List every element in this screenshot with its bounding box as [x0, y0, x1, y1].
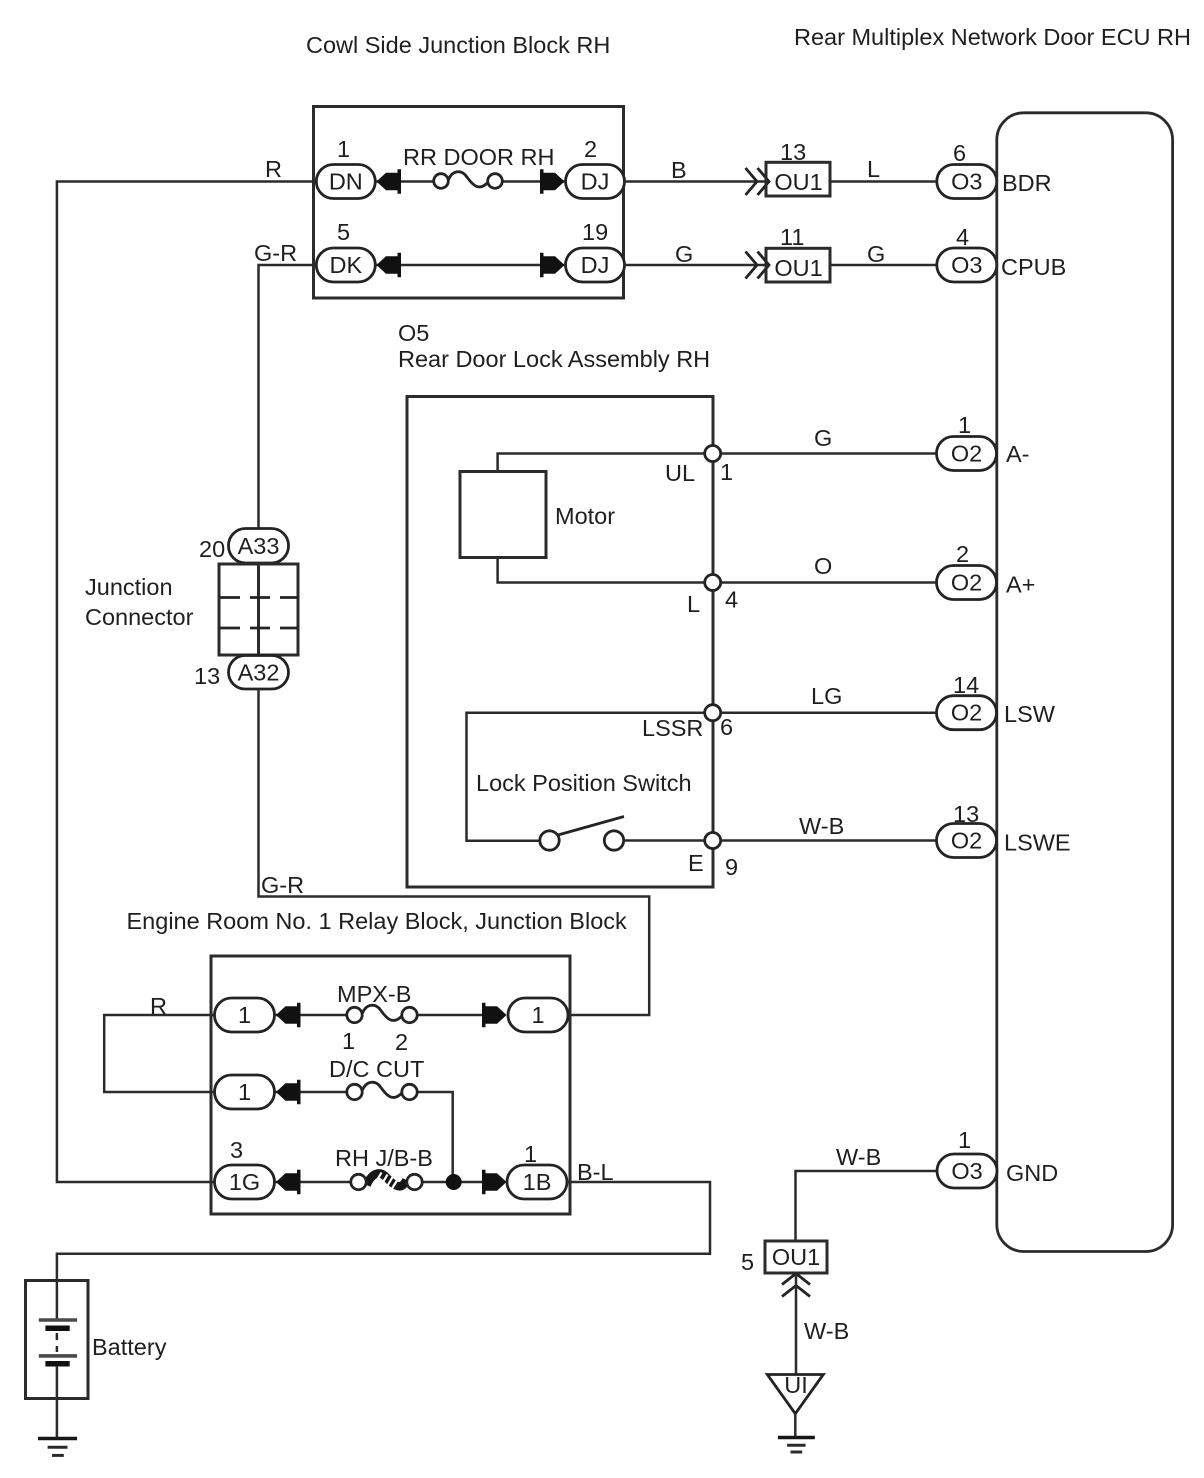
- svg-text:DJ: DJ: [581, 169, 610, 195]
- label Battery: [92, 1334, 167, 1360]
- label wire color B-L: [577, 1159, 614, 1185]
- connector OU1 pin13: [766, 162, 830, 196]
- svg-text:R: R: [150, 993, 167, 1019]
- arrow into 1G: [276, 1170, 301, 1194]
- fuse MPX-B: [347, 1005, 417, 1022]
- connector relay row1 left pin 1: [215, 998, 275, 1032]
- ground point UI triangle: [767, 1372, 823, 1414]
- svg-text:4: 4: [725, 587, 738, 613]
- node pin 9 E: [705, 833, 721, 849]
- wire relay row2 from fuse down to junction: [417, 1092, 453, 1182]
- svg-text:B: B: [671, 157, 687, 183]
- svg-text:DJ: DJ: [581, 252, 610, 278]
- wire G pin1 to O2 A-: [721, 452, 937, 455]
- fuse D/C CUT: [347, 1082, 417, 1099]
- wire relay row2 inner left: [275, 1091, 348, 1094]
- wire B-L from 1B to battery line: [57, 1182, 710, 1319]
- fuse RR DOOR RH: [434, 172, 503, 189]
- pin 13 label left of A32: [194, 663, 220, 689]
- svg-text:2: 2: [584, 136, 597, 162]
- svg-text:2: 2: [956, 541, 969, 567]
- component Rear Door Lock Assembly RH box: [407, 397, 713, 888]
- svg-text:LSWE: LSWE: [1004, 830, 1071, 856]
- svg-text:R: R: [265, 156, 282, 182]
- svg-text:G-R: G-R: [254, 240, 297, 266]
- label wire color G (right): [867, 241, 885, 267]
- label L: [687, 591, 700, 617]
- pin 3 label above 1G: [230, 1137, 243, 1163]
- wire O pin4 to O2 A+: [721, 581, 937, 584]
- connector A32: [229, 656, 289, 690]
- svg-text:9: 9: [725, 854, 738, 880]
- connector O3 pin6 BDR: [937, 165, 997, 199]
- connector relay row2 left pin 1: [215, 1075, 275, 1109]
- wire G from OU1 to O3 pin4: [830, 264, 937, 267]
- label wire color G-R (bottom): [261, 872, 304, 898]
- pin 13 label above OU1: [780, 139, 806, 165]
- svg-text:G-R: G-R: [261, 872, 304, 898]
- motor M box: [460, 472, 546, 558]
- inline connector chevrons row2: [746, 252, 770, 279]
- svg-text:BDR: BDR: [1002, 170, 1052, 196]
- svg-text:W-B: W-B: [804, 1318, 849, 1344]
- svg-text:O2: O2: [951, 700, 982, 726]
- pin 11 label above OU1: [780, 224, 804, 250]
- pin number 1: [720, 459, 733, 485]
- svg-text:A-: A-: [1006, 441, 1030, 467]
- svg-text:O2: O2: [951, 570, 982, 596]
- svg-text:O2: O2: [951, 828, 982, 854]
- svg-text:6: 6: [720, 714, 733, 740]
- svg-text:OU1: OU1: [774, 255, 822, 281]
- wire battery negative to ground: [56, 1366, 59, 1437]
- wire relay row3 inner right: [422, 1181, 485, 1184]
- svg-text:UL: UL: [665, 460, 695, 486]
- svg-text:MPX-B: MPX-B: [337, 981, 411, 1007]
- label O5: [398, 320, 429, 346]
- svg-text:O2: O2: [951, 441, 982, 467]
- wire G-R from A32 down and right to MPX-B: [259, 689, 650, 1015]
- pin 20 label left of A33: [199, 536, 225, 562]
- svg-text:G: G: [675, 241, 693, 267]
- svg-text:L: L: [867, 156, 880, 182]
- svg-text:CPUB: CPUB: [1001, 254, 1066, 280]
- label Engine Room No. 1 Relay Block, Junction Block: [127, 908, 628, 934]
- port name A-: [1006, 441, 1030, 467]
- svg-text:DK: DK: [329, 252, 362, 278]
- svg-text:O5: O5: [398, 320, 429, 346]
- wire G from cowl to OU1 pin11: [624, 264, 767, 267]
- port name LSW: [1004, 701, 1056, 727]
- wire W-B from OU1 pin5 up to O3 GND: [796, 1171, 938, 1241]
- svg-text:UI: UI: [784, 1372, 808, 1398]
- lock position switch sub-box: [467, 713, 712, 841]
- label wire color LG: [811, 683, 842, 709]
- label Motor: [555, 503, 615, 529]
- svg-text:4: 4: [956, 224, 969, 250]
- svg-text:1: 1: [720, 459, 733, 485]
- label LSSR: [642, 715, 703, 741]
- pin 13 label above O2: [953, 801, 979, 827]
- label fuse D/C CUT: [329, 1056, 424, 1082]
- svg-text:5: 5: [337, 219, 350, 245]
- svg-text:1: 1: [238, 1079, 251, 1105]
- label wire color W-B (lower): [804, 1318, 849, 1344]
- port name A+: [1006, 572, 1035, 598]
- ground (UI): [778, 1438, 815, 1453]
- pin 14 label above O2: [953, 672, 979, 698]
- svg-text:O3: O3: [951, 169, 982, 195]
- wire cowl row1 inner right segment: [502, 180, 567, 183]
- node pin 6 LSSR: [705, 705, 721, 721]
- svg-text:1: 1: [238, 1002, 251, 1028]
- svg-text:O: O: [814, 553, 832, 579]
- ground (battery): [38, 1439, 77, 1456]
- label wire color L: [867, 156, 880, 182]
- svg-text:DN: DN: [329, 169, 363, 195]
- pin 19 label above DJ: [582, 219, 608, 245]
- pin 6 label above O3: [953, 140, 966, 166]
- pin 5 label above DK: [337, 219, 350, 245]
- label E: [688, 850, 704, 876]
- title Rear Multiplex Network Door ECU RH: [794, 24, 1191, 50]
- fuse pin 2 label: [395, 1029, 408, 1055]
- svg-text:1B: 1B: [523, 1169, 552, 1195]
- connector O3 pin1 GND: [937, 1154, 997, 1188]
- wire L from OU1 to O3 pin6: [830, 180, 937, 183]
- svg-text:W-B: W-B: [836, 1144, 881, 1170]
- svg-text:O3: O3: [951, 252, 982, 278]
- svg-text:Cowl Side Junction Block RH: Cowl Side Junction Block RH: [306, 32, 610, 58]
- connector 1B pin1: [507, 1165, 567, 1199]
- fusible link RH J/B-B: [351, 1173, 422, 1193]
- fuse pin 1 label: [342, 1028, 355, 1054]
- wire motor lower (L pin4): [498, 557, 711, 583]
- svg-text:Lock Position Switch: Lock Position Switch: [476, 770, 692, 796]
- svg-text:GND: GND: [1006, 1160, 1058, 1186]
- wire switch to pin E: [624, 839, 711, 842]
- pin 5 label left of OU1: [741, 1249, 754, 1275]
- label fusible link RH J/B-B: [335, 1145, 433, 1171]
- wire LG pin6 to O2 LSW: [721, 711, 937, 714]
- label UL: [665, 460, 695, 486]
- wire triangle to ground: [794, 1414, 797, 1437]
- svg-text:D/C CUT: D/C CUT: [329, 1056, 424, 1082]
- connector DK pin5: [316, 248, 375, 282]
- label wire color R (relay): [150, 993, 167, 1019]
- svg-text:LG: LG: [811, 683, 842, 709]
- wire relay row3 inner left: [275, 1181, 352, 1184]
- title Cowl Side Junction Block RH: [306, 32, 610, 58]
- svg-text:O3: O3: [951, 1158, 982, 1184]
- junction block Cowl Side Junction Block RH box: [314, 107, 624, 299]
- svg-text:20: 20: [199, 536, 225, 562]
- label wire color W-B: [799, 813, 844, 839]
- svg-text:1: 1: [524, 1141, 537, 1167]
- ECU Rear Multiplex Network Door ECU RH body: [997, 113, 1173, 1252]
- wire relay row1 inner left: [275, 1014, 348, 1017]
- svg-text:Connector: Connector: [85, 604, 194, 630]
- svg-text:L: L: [687, 591, 700, 617]
- wire relay row1 inner right: [417, 1014, 485, 1017]
- connector 1G pin3: [215, 1165, 275, 1199]
- connector DJ pin2: [566, 165, 625, 199]
- svg-text:Engine Room No. 1 Relay Block,: Engine Room No. 1 Relay Block, Junction …: [127, 908, 628, 934]
- label wire color O: [814, 553, 832, 579]
- pin 1 label above O2: [958, 412, 971, 438]
- junction connector body: [219, 564, 298, 655]
- arrow into DK (left): [377, 253, 402, 277]
- pin 1 label above 1B: [524, 1141, 537, 1167]
- pin number 4: [725, 587, 738, 613]
- pin number 6: [720, 714, 733, 740]
- shield chevrons below OU1: [782, 1274, 810, 1297]
- arrow into relay row1 left oval: [276, 1003, 301, 1027]
- svg-text:Junction: Junction: [85, 574, 173, 600]
- port name GND: [1006, 1160, 1058, 1186]
- connector O2 pin14 LSW: [937, 696, 997, 730]
- port name LSWE: [1004, 830, 1071, 856]
- wire B from cowl to OU1 pin13: [624, 180, 767, 183]
- svg-text:3: 3: [230, 1137, 243, 1163]
- svg-text:14: 14: [953, 672, 979, 698]
- svg-text:1: 1: [958, 412, 971, 438]
- port name BDR: [1002, 170, 1052, 196]
- svg-text:Motor: Motor: [555, 503, 615, 529]
- arrow into relay row2 left oval: [276, 1080, 301, 1104]
- pin 4 label above O3: [956, 224, 969, 250]
- connector O2 pin2 A+: [937, 566, 997, 600]
- svg-text:5: 5: [741, 1249, 754, 1275]
- arrow into relay row1 right oval: [482, 1003, 507, 1027]
- connector O3 pin4 CPUB: [937, 248, 997, 282]
- pin 2 label above O2: [956, 541, 969, 567]
- svg-text:A32: A32: [238, 660, 280, 686]
- svg-text:1: 1: [342, 1028, 355, 1054]
- svg-text:B-L: B-L: [577, 1159, 614, 1185]
- svg-text:A+: A+: [1006, 572, 1035, 598]
- wire cowl row2 inner: [375, 264, 566, 267]
- connector OU1 pin5: [765, 1241, 827, 1273]
- node pin 4 L: [705, 575, 721, 591]
- wire W-B pin9 to O2 LSWE: [721, 839, 937, 842]
- svg-text:G: G: [867, 241, 885, 267]
- svg-text:1: 1: [337, 136, 350, 162]
- pin 2 label above DJ: [584, 136, 597, 162]
- svg-text:G: G: [814, 425, 832, 451]
- battery plates: [39, 1320, 77, 1364]
- label wire color W-B (gnd): [836, 1144, 881, 1170]
- label wire color R (top): [265, 156, 282, 182]
- label wire color G-R (top): [254, 240, 297, 266]
- svg-text:A33: A33: [238, 533, 280, 559]
- svg-text:19: 19: [582, 219, 608, 245]
- svg-text:LSW: LSW: [1004, 701, 1056, 727]
- wire cowl row1 inner left segment: [375, 180, 434, 183]
- svg-text:RH J/B-B: RH J/B-B: [335, 1145, 433, 1171]
- svg-text:Rear Multiplex Network Door EC: Rear Multiplex Network Door ECU RH: [794, 24, 1191, 50]
- arrow into 1B: [482, 1170, 507, 1194]
- connector DJ pin19: [566, 248, 625, 282]
- connector relay row1 right pin 1: [508, 998, 568, 1032]
- svg-text:OU1: OU1: [772, 1244, 820, 1270]
- wire R from cowl block to far-left vertical down to relay 1G: [57, 182, 314, 1183]
- svg-text:W-B: W-B: [799, 813, 844, 839]
- pin number 9: [725, 854, 738, 880]
- switch contact circles and lever: [540, 817, 624, 851]
- label Rear Door Lock Assembly RH: [398, 346, 710, 372]
- battery box: [26, 1281, 89, 1399]
- wire left U loop row1 to row2: [104, 1015, 214, 1092]
- label Junction Connector: [85, 574, 194, 630]
- wire motor upper (UL pin1): [498, 454, 711, 473]
- svg-text:1G: 1G: [229, 1169, 260, 1195]
- node pin 1 UL: [705, 446, 721, 462]
- svg-text:LSSR: LSSR: [642, 715, 703, 741]
- inline connector chevrons row1: [746, 168, 770, 195]
- svg-text:RR DOOR RH: RR DOOR RH: [403, 144, 554, 170]
- arrow into DJ pin2 (right): [540, 169, 565, 193]
- connector O2 pin1 A-: [937, 437, 997, 471]
- connector OU1 pin11: [766, 248, 830, 282]
- connector A33: [229, 529, 289, 564]
- label fuse MPX-B: [337, 981, 411, 1007]
- svg-text:E: E: [688, 850, 704, 876]
- svg-text:OU1: OU1: [774, 169, 822, 195]
- svg-text:6: 6: [953, 140, 966, 166]
- svg-text:13: 13: [953, 801, 979, 827]
- pin 1 label above O3 GND: [958, 1127, 971, 1153]
- connector O2 pin13 LSWE: [937, 824, 997, 858]
- svg-text:1: 1: [531, 1002, 544, 1028]
- label fuse RR DOOR RH: [403, 144, 554, 170]
- pin 1 label above DN: [337, 136, 350, 162]
- relay block box: [211, 956, 570, 1214]
- junction node dot: [446, 1174, 462, 1190]
- arrow into DJ pin19 (right): [540, 253, 565, 277]
- wire W-B down to UI ground triangle: [795, 1273, 798, 1374]
- svg-text:1: 1: [958, 1127, 971, 1153]
- label Lock Position Switch: [476, 770, 692, 796]
- port name CPUB: [1001, 254, 1066, 280]
- svg-text:Rear Door Lock Assembly RH: Rear Door Lock Assembly RH: [398, 346, 710, 372]
- label wire color B: [671, 157, 687, 183]
- label wire color G: [814, 425, 832, 451]
- svg-text:11: 11: [780, 224, 804, 250]
- svg-text:13: 13: [194, 663, 220, 689]
- wire G-R from cowl DK down to junction connector A33: [259, 265, 314, 530]
- arrow into DN (left): [377, 169, 402, 193]
- svg-text:Battery: Battery: [92, 1334, 167, 1360]
- svg-text:2: 2: [395, 1029, 408, 1055]
- label wire color G (left): [675, 241, 693, 267]
- connector DN pin1: [316, 165, 375, 199]
